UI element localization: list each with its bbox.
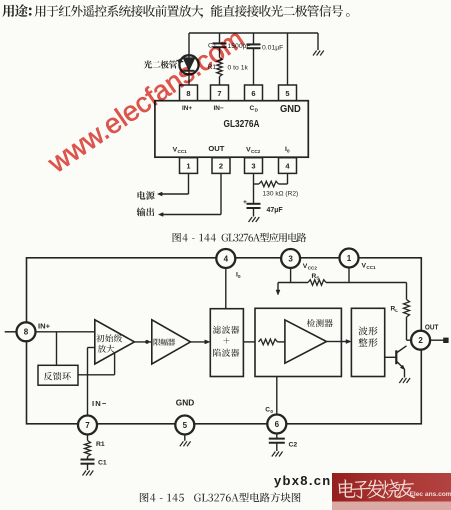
svg-text:GL3276A: GL3276A bbox=[224, 119, 260, 130]
svg-text:5: 5 bbox=[285, 89, 289, 98]
svg-text:IN+: IN+ bbox=[182, 105, 192, 112]
svg-text:7: 7 bbox=[217, 89, 221, 98]
svg-text:0 to 1k: 0 to 1k bbox=[228, 65, 249, 72]
svg-text:0: 0 bbox=[238, 274, 241, 279]
svg-text:4: 4 bbox=[224, 254, 229, 263]
svg-text:7: 7 bbox=[85, 421, 90, 430]
svg-text:47µF: 47µF bbox=[267, 207, 284, 214]
svg-text:CC1: CC1 bbox=[366, 265, 376, 270]
svg-text:0: 0 bbox=[287, 149, 290, 154]
svg-text:8: 8 bbox=[24, 328, 29, 337]
svg-text:0: 0 bbox=[270, 409, 273, 414]
svg-text:C2: C2 bbox=[289, 441, 298, 448]
svg-text:6: 6 bbox=[251, 89, 255, 98]
svg-text:IN+: IN+ bbox=[38, 321, 51, 330]
svg-text:L: L bbox=[395, 308, 398, 313]
svg-text:2: 2 bbox=[418, 336, 423, 345]
svg-text:2: 2 bbox=[219, 161, 223, 170]
svg-text:6: 6 bbox=[275, 420, 280, 429]
svg-text:CC2: CC2 bbox=[251, 149, 261, 154]
svg-text:R1: R1 bbox=[96, 441, 105, 448]
svg-text:OUT: OUT bbox=[208, 144, 224, 153]
svg-text:GND: GND bbox=[280, 104, 301, 115]
svg-text:CC1: CC1 bbox=[178, 149, 188, 154]
svg-text:Elec ans.com: Elec ans.com bbox=[410, 491, 451, 498]
svg-text:OUT: OUT bbox=[425, 323, 439, 332]
svg-text:1: 1 bbox=[347, 254, 352, 263]
svg-text:130 kΩ (R2): 130 kΩ (R2) bbox=[263, 191, 299, 198]
svg-text:1: 1 bbox=[186, 161, 190, 170]
svg-text:C1: C1 bbox=[98, 460, 107, 467]
svg-text:+: + bbox=[243, 199, 247, 206]
svg-text:IN−: IN− bbox=[214, 105, 224, 112]
svg-text:0.01µF: 0.01µF bbox=[262, 45, 283, 52]
svg-text:GND: GND bbox=[176, 398, 195, 408]
svg-text:5: 5 bbox=[183, 421, 188, 430]
svg-text:ybx8.cn: ybx8.cn bbox=[274, 473, 332, 488]
svg-text:IN−: IN− bbox=[92, 399, 108, 408]
svg-text:CC2: CC2 bbox=[308, 266, 318, 271]
svg-text:S: S bbox=[316, 275, 319, 280]
svg-text:3: 3 bbox=[251, 161, 255, 170]
svg-text:3: 3 bbox=[288, 254, 293, 263]
